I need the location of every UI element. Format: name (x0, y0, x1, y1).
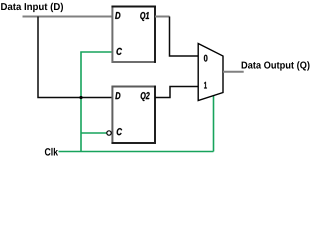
mux U3 body (198, 44, 223, 101)
label Data Output (Q) (242, 61, 310, 70)
label Clk (45, 148, 58, 156)
wire clock riser to U1 C (green) (81, 52, 112, 152)
pin label Q1 of U1 (140, 12, 149, 21)
wire mux output stub (gray) (223, 71, 244, 73)
pin label D of U1 (115, 12, 120, 19)
flip-flop U2 body (112, 86, 156, 144)
junction crossing bulge at clock/data crossover (79, 96, 82, 99)
wire clock net Clk horizontal (green) (59, 151, 214, 153)
mux input label 0 (204, 55, 208, 62)
pin label D of U2 (115, 92, 120, 99)
pin label C of U1 (116, 48, 122, 55)
wire Q1 stub (gray) (155, 16, 170, 18)
pin label Q2 of U2 (141, 92, 150, 101)
pin label C of U2 (117, 128, 122, 135)
wire Q2 to mux input 1 (black) (155, 87, 198, 98)
wire Q1 to mux input 0 (black) (170, 17, 199, 57)
wire data input net (gray) to U1 D (23, 16, 113, 18)
wire clock to mux select (green) (213, 96, 215, 152)
wire clock branch to U2 C bubble (green) (81, 132, 107, 134)
inverter bubble on U2 clock pin (107, 131, 111, 135)
wire data branch to U2 D (black) (38, 17, 112, 98)
flip-flop U1 body (112, 6, 156, 63)
label Data Input (D) (1, 3, 63, 12)
mux input label 1 (204, 82, 207, 89)
